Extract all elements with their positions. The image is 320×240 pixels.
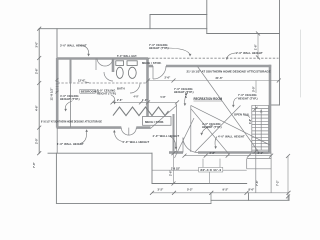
svg-text:5'-2": 5'-2" bbox=[187, 188, 194, 192]
svg-text:BATH: BATH bbox=[117, 87, 125, 91]
svg-text:3'-0" WALL HEIGHT: 3'-0" WALL HEIGHT bbox=[60, 43, 87, 47]
svg-text:HEIGHT (TYP.): HEIGHT (TYP.) bbox=[97, 91, 117, 95]
svg-text:7'-6": 7'-6" bbox=[255, 179, 259, 186]
svg-text:2'-0" WALL HEIGHT: 2'-0" WALL HEIGHT bbox=[123, 140, 150, 144]
svg-text:12'-6": 12'-6" bbox=[78, 79, 86, 83]
svg-text:1'-0": 1'-0" bbox=[142, 99, 148, 102]
svg-text:4'-0" WALL HEIGHT: 4'-0" WALL HEIGHT bbox=[153, 134, 180, 138]
svg-text:8'-10 1/2" AT SOUTHERN HOME DE: 8'-10 1/2" AT SOUTHERN HOME DESIGNS' ATT… bbox=[41, 120, 102, 124]
svg-text:HEIGHT (TYP.): HEIGHT (TYP.) bbox=[60, 97, 80, 101]
svg-text:1'-6": 1'-6" bbox=[254, 43, 258, 50]
svg-text:5'-0" WALL HGT.: 5'-0" WALL HGT. bbox=[117, 55, 137, 58]
svg-text:2'-6": 2'-6" bbox=[117, 99, 123, 102]
svg-text:HEIGHT (TYP.): HEIGHT (TYP.) bbox=[149, 46, 169, 50]
svg-text:HEIGHT (TYP.): HEIGHT (TYP.) bbox=[238, 96, 258, 100]
svg-text:HEIGHT (TYP.): HEIGHT (TYP.) bbox=[174, 90, 194, 94]
svg-text:2'-6": 2'-6" bbox=[35, 67, 39, 74]
svg-text:8'-6": 8'-6" bbox=[249, 188, 256, 192]
svg-text:4'-6": 4'-6" bbox=[35, 104, 39, 111]
svg-text:MECH / STOR.: MECH / STOR. bbox=[145, 120, 164, 124]
svg-text:HEIGHT (TYP.): HEIGHT (TYP.) bbox=[202, 125, 222, 129]
svg-text:2'-0": 2'-0" bbox=[35, 137, 39, 144]
svg-text:3'-1": 3'-1" bbox=[258, 151, 265, 155]
svg-text:2'-6": 2'-6" bbox=[165, 75, 172, 79]
svg-text:2'-8 1/2": 2'-8 1/2" bbox=[171, 168, 180, 171]
svg-text:3'-6": 3'-6" bbox=[249, 119, 252, 124]
svg-text:7'-0": 7'-0" bbox=[32, 161, 36, 168]
svg-text:5'-8": 5'-8" bbox=[161, 96, 166, 99]
svg-text:MECH / STOR.: MECH / STOR. bbox=[142, 61, 162, 65]
svg-text:BEDROOM 3: BEDROOM 3 bbox=[81, 89, 100, 93]
svg-text:RECREATION ROOM: RECREATION ROOM bbox=[194, 97, 223, 101]
svg-text:2'-6" WALL HEIGHT: 2'-6" WALL HEIGHT bbox=[236, 51, 263, 55]
svg-text:21'-6": 21'-6" bbox=[216, 76, 224, 80]
svg-text:22'-4 X 11'-4: 22'-4 X 11'-4 bbox=[200, 168, 221, 172]
svg-text:3'-2": 3'-2" bbox=[158, 188, 165, 192]
svg-text:7'-2": 7'-2" bbox=[276, 179, 280, 186]
svg-text:4'-0" WALL HEIGHT: 4'-0" WALL HEIGHT bbox=[218, 134, 245, 138]
svg-text:1'-6" WALL HEIGHT: 1'-6" WALL HEIGHT bbox=[57, 142, 84, 146]
svg-text:9'-8": 9'-8" bbox=[184, 91, 188, 98]
svg-text:21'-10 1/2" AT SOUTHERN HOME D: 21'-10 1/2" AT SOUTHERN HOME DESIGNS' AT… bbox=[187, 69, 271, 73]
svg-text:OPEN RAIL: OPEN RAIL bbox=[234, 112, 250, 116]
svg-text:2'-8": 2'-8" bbox=[210, 151, 217, 155]
svg-text:3'-0": 3'-0" bbox=[252, 85, 256, 92]
svg-text:11'-9 1/2": 11'-9 1/2" bbox=[50, 87, 54, 101]
svg-text:9'-2": 9'-2" bbox=[223, 188, 230, 192]
svg-text:3'-0": 3'-0" bbox=[35, 41, 39, 48]
svg-text:4'-0": 4'-0" bbox=[134, 95, 139, 98]
